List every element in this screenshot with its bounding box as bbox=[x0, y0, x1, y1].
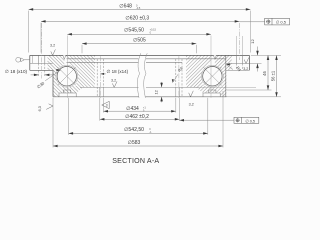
dim line 545.50 bbox=[67, 33, 211, 36]
left hole centreline bbox=[41, 23, 43, 79]
label 505 bbox=[133, 38, 146, 44]
inner ring left section (hatched) bbox=[66, 55, 95, 93]
right hole edge extensions bbox=[236, 36, 242, 55]
svg-text:∅ 18 (x14): ∅ 18 (x14) bbox=[107, 69, 129, 74]
svg-text:3,2: 3,2 bbox=[243, 67, 248, 71]
bottom recess band top bbox=[80, 86, 199, 88]
svg-text:3,2: 3,2 bbox=[50, 43, 55, 47]
seal step right bbox=[203, 90, 220, 97]
ball dia leader bbox=[45, 69, 60, 81]
svg-text:-0,5: -0,5 bbox=[136, 7, 141, 10]
ball left bbox=[57, 67, 76, 86]
dim 12 centre bbox=[160, 82, 163, 102]
svg-text:∅545,50: ∅545,50 bbox=[124, 28, 144, 34]
ext lines 462 bbox=[100, 98, 180, 121]
bottom face line bbox=[53, 96, 226, 98]
dim 18x10 arrows bbox=[31, 74, 53, 77]
upper recess line 2 bbox=[67, 61, 183, 63]
left flange seat line bbox=[30, 62, 53, 64]
seal notch left bbox=[63, 55, 66, 59]
radius R4 upper bbox=[226, 64, 241, 73]
left flange outer edge bbox=[29, 55, 31, 70]
contact lines left ball bbox=[58, 67, 76, 85]
dim line 583 bbox=[53, 145, 223, 148]
recess edge left bbox=[99, 87, 101, 96]
finish 6,3 left edge bbox=[38, 104, 53, 112]
label 18x10 bbox=[5, 69, 28, 74]
label 18x14 bbox=[100, 69, 128, 75]
label 583 bbox=[128, 140, 141, 146]
dim line 620 bbox=[41, 20, 239, 23]
svg-text:12: 12 bbox=[154, 89, 159, 94]
inner hole left centreline bbox=[99, 56, 101, 99]
label 12 right bbox=[250, 39, 255, 44]
svg-text:∅620 ±0,3: ∅620 ±0,3 bbox=[125, 15, 149, 21]
left flange hole bbox=[39, 55, 45, 76]
inner ring hole right (dashed) bbox=[176, 59, 182, 97]
right flange seat line bbox=[226, 62, 250, 64]
svg-text:∅ 18 (x10): ∅ 18 (x10) bbox=[5, 69, 28, 74]
ext lines 434 bbox=[103, 98, 175, 113]
svg-text:∅505: ∅505 bbox=[133, 38, 146, 44]
raceway arc left bbox=[56, 65, 78, 87]
label 46 bbox=[262, 71, 267, 76]
title SECTION A-A bbox=[112, 157, 159, 165]
label 545.50 bbox=[124, 28, 157, 35]
svg-text:3,2: 3,2 bbox=[111, 79, 116, 83]
upper recess line 1 bbox=[67, 58, 226, 60]
svg-text:56 ±1: 56 ±1 bbox=[271, 70, 276, 81]
inner hole right centreline bbox=[178, 56, 180, 99]
dim line 462 bbox=[100, 118, 180, 121]
svg-text:3: 3 bbox=[106, 104, 108, 108]
right flange hole bbox=[236, 55, 242, 70]
svg-text:∅583: ∅583 bbox=[128, 140, 141, 146]
svg-text:∅ 0,5: ∅ 0,5 bbox=[245, 119, 255, 123]
leader step right bbox=[249, 63, 261, 65]
position tolerance frame bottom bbox=[234, 117, 259, 123]
svg-text:∅648: ∅648 bbox=[119, 4, 132, 10]
outer ring left section (hatched) bbox=[48, 55, 77, 96]
bore edge left bbox=[102, 87, 104, 96]
finish 3,2 inner recess bbox=[111, 79, 117, 88]
recess edge right bbox=[178, 87, 180, 96]
ball clearance right bbox=[201, 65, 223, 87]
svg-text:∅434: ∅434 bbox=[126, 106, 139, 112]
top surface line bbox=[30, 54, 250, 56]
left ring outer edge bbox=[52, 70, 54, 97]
dim line 434 bbox=[103, 110, 175, 113]
ext top right bbox=[251, 54, 281, 56]
inner ring right section (hatched) bbox=[186, 55, 214, 93]
left flange corner step bbox=[31, 55, 33, 63]
right flange bottom bbox=[226, 69, 250, 71]
radius R4 lower bbox=[172, 66, 184, 83]
label ball 30 bbox=[36, 80, 46, 89]
svg-text:46: 46 bbox=[262, 71, 267, 76]
raceway arc right bbox=[202, 65, 224, 87]
right flange inner edge bbox=[225, 55, 227, 58]
inner ring hole left (dashed) bbox=[97, 59, 103, 97]
dim 46 bbox=[267, 55, 270, 90]
ext bot right bbox=[226, 96, 281, 98]
break line right bbox=[144, 53, 147, 98]
ext lines 542.50 bbox=[69, 98, 208, 135]
ext line 620 left bbox=[40, 23, 42, 53]
dim line 505 bbox=[82, 42, 196, 45]
svg-text:∅462 ±0,2: ∅462 ±0,2 bbox=[125, 114, 149, 120]
seal notch right bbox=[214, 55, 217, 59]
ball right bbox=[203, 67, 222, 86]
finish 3,2 top left bbox=[50, 43, 55, 55]
tolerance leader top bbox=[239, 21, 264, 23]
svg-text:6,3: 6,3 bbox=[38, 106, 42, 111]
label 56 bbox=[271, 70, 276, 81]
ext lines 505 bbox=[82, 45, 196, 54]
svg-text:∅542,50: ∅542,50 bbox=[124, 127, 144, 133]
ext lines 583 bbox=[53, 91, 223, 147]
svg-text:SECTION A-A: SECTION A-A bbox=[112, 157, 159, 165]
break line left bbox=[137, 53, 140, 98]
svg-text:3,2: 3,2 bbox=[189, 103, 194, 107]
label 620 bbox=[125, 15, 149, 21]
finish 3,2 right step bbox=[243, 58, 249, 71]
label 648 bbox=[119, 4, 141, 11]
ext lines 648 bbox=[29, 11, 251, 53]
position tolerance frame top bbox=[265, 18, 290, 25]
seal step left bbox=[59, 90, 76, 97]
ext lines 545.50 bbox=[67, 36, 211, 98]
bore edge right bbox=[175, 87, 177, 96]
dim 12 right bbox=[256, 47, 259, 72]
left flange bottom bbox=[30, 69, 53, 71]
label 12 centre bbox=[154, 89, 159, 94]
dim 56 bbox=[275, 55, 278, 96]
ext step right bbox=[226, 89, 271, 91]
ball clearance left bbox=[56, 65, 78, 87]
svg-text:∅ 0,5: ∅ 0,5 bbox=[276, 19, 287, 24]
svg-text:12: 12 bbox=[250, 39, 255, 44]
band top ext right bbox=[199, 86, 256, 88]
dim line 542.50 bbox=[69, 132, 208, 135]
right hole centreline bbox=[238, 23, 240, 60]
label 542.50 bbox=[124, 127, 152, 134]
right ring body edge bbox=[225, 55, 227, 96]
outer ring right section (hatched) bbox=[203, 55, 232, 96]
label 434 bbox=[126, 106, 146, 113]
tolerance leader bottom bbox=[179, 119, 234, 122]
finish 3,2 bottom right bbox=[189, 91, 194, 107]
label 462 bbox=[125, 114, 149, 120]
datum flag bore bbox=[102, 101, 109, 108]
grease nipple bbox=[16, 57, 30, 62]
dim line 648 bbox=[29, 8, 251, 11]
right ring outer edge bbox=[248, 55, 250, 70]
contact lines right ball bbox=[203, 67, 221, 85]
